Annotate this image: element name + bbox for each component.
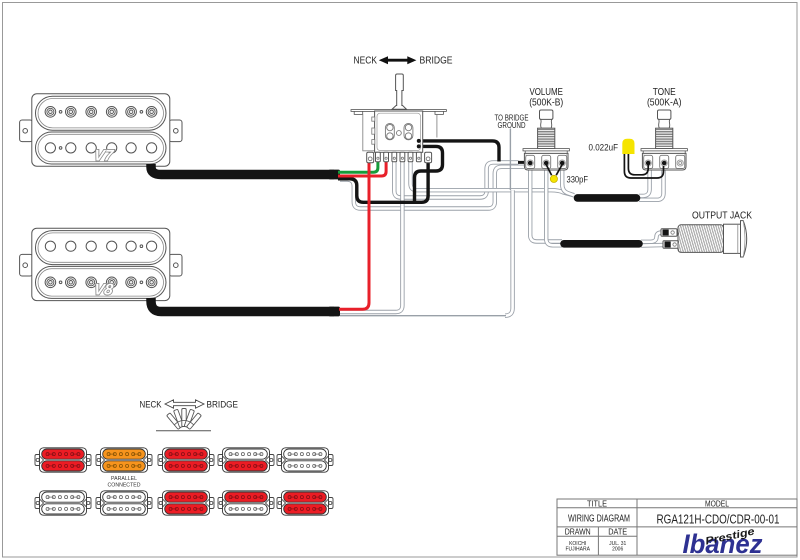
- svg-text:(500K-A): (500K-A): [647, 97, 682, 108]
- wire white volume lug1 to jack cable (ground): [530, 166, 562, 242]
- legend position 5 neck pickup: [277, 448, 333, 472]
- wire white tone casing lead: [639, 171, 650, 196]
- legend NECK-BRIDGE arrow: [140, 399, 239, 409]
- label NECK-BRIDGE (switch): [354, 56, 453, 67]
- svg-text:GROUND: GROUND: [498, 121, 526, 130]
- capacitor 0.022uF: [622, 139, 634, 154]
- svg-text:OUTPUT JACK: OUTPUT JACK: [692, 210, 752, 221]
- output jack lugs: [661, 229, 679, 248]
- wire V8 shield (bare): [340, 315, 506, 317]
- output jack barrel: [678, 221, 747, 257]
- switch body: [375, 111, 423, 152]
- switch side clips: [372, 117, 375, 144]
- label TO BRIDGE GROUND: [495, 114, 529, 131]
- svg-text:BRIDGE: BRIDGE: [207, 399, 239, 409]
- svg-text:V8: V8: [93, 282, 115, 299]
- svg-text:0.022uF: 0.022uF: [589, 143, 619, 154]
- wire white jack hot lead: [641, 232, 665, 241]
- pickup V8 top coil: [36, 231, 167, 265]
- pickup V7 pole screws (top row): [45, 107, 157, 118]
- switch mounting plate: [351, 110, 446, 115]
- selector switch lever: [392, 74, 407, 109]
- svg-text:DATE: DATE: [608, 527, 627, 537]
- svg-text:MODEL: MODEL: [705, 499, 729, 508]
- wire white volume lug2 to jack cable (hot): [546, 166, 562, 245]
- wire white run C from V8 shield up to run A: [505, 190, 513, 316]
- wire white V7 shield run to volume casing: [340, 167, 524, 209]
- svg-text:CONNECTED: CONNECTED: [108, 482, 141, 488]
- svg-text:(500K-B): (500K-B): [529, 97, 563, 108]
- pickup V7 label: [93, 147, 116, 164]
- legend position 3 bridge pickup: [158, 491, 214, 515]
- switch solder dots: [417, 139, 421, 149]
- potentiometer volume (500K-B): [538, 110, 555, 149]
- svg-text:DRAWN: DRAWN: [565, 527, 591, 537]
- pickup V8 body: [32, 228, 170, 300]
- switch rear frame: [363, 114, 437, 150]
- svg-text:WIRING DIAGRAM: WIRING DIAGRAM: [568, 514, 630, 525]
- wire white from switch lug to volume pot lug1 (run B): [394, 162, 518, 198]
- pickup V8 pole screws (bottom row): [45, 277, 157, 288]
- svg-text:NECK: NECK: [354, 56, 378, 67]
- switch rotor contacts: [385, 123, 413, 139]
- pickup V8 bottom coil: [36, 266, 167, 298]
- pickup V8 mounting ears: [20, 254, 182, 276]
- cable V8 shielded lead: [151, 298, 334, 312]
- pickup V7 mounting ears: [20, 120, 182, 142]
- Ibanez logo: [683, 525, 764, 559]
- legend switch lever positions: [156, 409, 211, 431]
- pickup V7 pole slugs (bottom row): [45, 143, 156, 153]
- svg-text:RGA121H-CDO/CDR-00-01: RGA121H-CDO/CDR-00-01: [657, 512, 780, 527]
- wire V7 black to switch frame lug: [338, 162, 428, 203]
- cable to output jack: [564, 240, 639, 248]
- wire switch output black to volume: [419, 141, 499, 162]
- wire V8 red to switch: [339, 162, 369, 310]
- svg-text:NECK: NECK: [140, 399, 163, 409]
- legend position 3 neck pickup: [158, 448, 214, 472]
- wire white tone lug2 lead: [639, 166, 664, 200]
- wire switch ground jumper: [415, 146, 443, 202]
- svg-text:FUJIHARA: FUJIHARA: [565, 547, 590, 553]
- legend position 1 neck pickup: [35, 448, 91, 472]
- wire white V8 to switch lug: [339, 162, 402, 313]
- wire V7 red to switch: [338, 162, 386, 177]
- legend position 1 bridge pickup: [35, 491, 91, 515]
- pickup V8 label: [93, 282, 115, 299]
- wire white volume lug3 to cable: [562, 166, 574, 195]
- pickup V7 top coil: [36, 96, 167, 130]
- legend position 5 bridge pickup: [277, 491, 333, 515]
- title block: [557, 499, 797, 555]
- cable V7 shielded lead: [151, 164, 334, 175]
- wire white jack ground lead: [641, 243, 666, 248]
- svg-text:BRIDGE: BRIDGE: [420, 56, 453, 67]
- svg-text:PARALLEL: PARALLEL: [111, 476, 137, 482]
- capacitor 330pF: [550, 175, 557, 182]
- label TONE: [647, 87, 682, 108]
- label VOLUME: [529, 87, 563, 108]
- svg-text:V7: V7: [93, 147, 116, 164]
- wire white run A from switch to vol-tone cable: [411, 162, 575, 196]
- potentiometer tone (500K-A): [656, 110, 673, 149]
- pickup V7 body: [32, 94, 170, 166]
- switch terminals: [367, 152, 432, 162]
- label PARALLEL CONNECTED: [108, 476, 141, 488]
- capacitor 330pF leads: [546, 165, 562, 176]
- pickup V7 bottom coil: [36, 132, 167, 164]
- svg-text:330pF: 330pF: [567, 175, 589, 186]
- legend position 2 bridge pickup: [96, 491, 152, 515]
- svg-text:TITLE: TITLE: [587, 499, 607, 508]
- legend position 2 neck pickup: [96, 448, 152, 472]
- title block texts: [565, 499, 780, 552]
- svg-text:2006: 2006: [612, 547, 623, 553]
- wire V7 green to switch: [338, 162, 378, 173]
- pickup V8 pole slugs (top row): [45, 241, 156, 251]
- legend position 4 bridge pickup: [218, 491, 274, 515]
- line to bridge ground: [509, 129, 511, 191]
- legend position 4 neck pickup: [218, 448, 274, 472]
- capacitor 0.022uF leads: [624, 152, 663, 178]
- cable volume to tone: [578, 194, 637, 202]
